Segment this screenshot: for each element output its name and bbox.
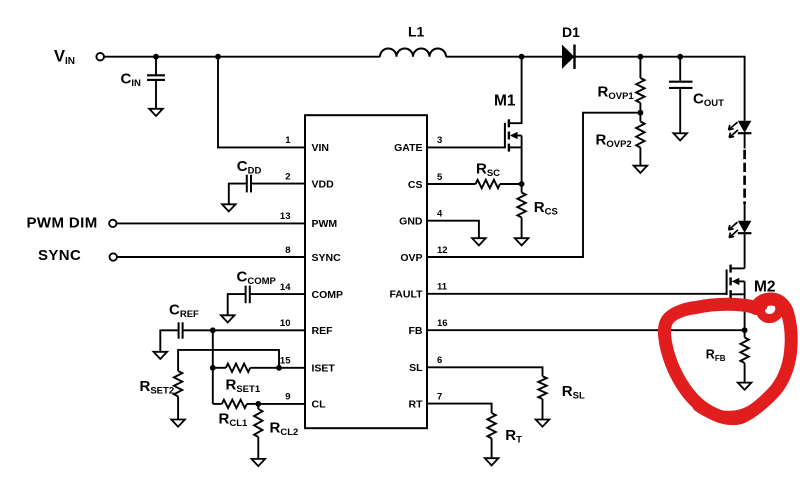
resistor RCL2 xyxy=(254,404,262,459)
svg-text:3: 3 xyxy=(437,135,442,146)
resistor RFB xyxy=(740,330,748,382)
junction ROVP xyxy=(638,110,644,116)
diode D1 xyxy=(562,45,575,69)
wire VIN pin 1 xyxy=(218,57,305,148)
wire L1 to D1 xyxy=(446,56,562,58)
annotation red knot overlap xyxy=(754,297,780,318)
svg-text:15: 15 xyxy=(280,356,291,367)
annotation red bottom thick stroke xyxy=(698,406,755,416)
wire input rail xyxy=(104,56,380,58)
LED D2 xyxy=(729,121,752,149)
junction CS-M1 xyxy=(519,181,525,187)
node VIN input terminal xyxy=(96,53,104,61)
svg-text:CS: CS xyxy=(408,179,423,191)
ground RSL xyxy=(536,420,550,427)
svg-text:14: 14 xyxy=(280,282,291,293)
wire GND pin 4 xyxy=(427,221,479,239)
LED D3 xyxy=(729,204,752,268)
junction rail-VINpin xyxy=(215,54,221,60)
svg-text:9: 9 xyxy=(285,392,290,403)
svg-text:FAULT: FAULT xyxy=(389,289,423,301)
resistor RSET2 xyxy=(174,371,182,420)
capacitor CDD xyxy=(229,175,305,205)
svg-text:16: 16 xyxy=(437,318,448,329)
wire GATE pin 3 xyxy=(427,146,505,148)
svg-text:13: 13 xyxy=(280,211,291,222)
svg-text:4: 4 xyxy=(437,209,443,220)
junction ISET left xyxy=(210,365,216,371)
ground GND pin xyxy=(472,238,486,245)
resistor RCS xyxy=(517,184,525,238)
svg-text:12: 12 xyxy=(437,245,448,256)
capacitor CCOMP xyxy=(228,286,305,316)
svg-text:10: 10 xyxy=(280,318,291,329)
junction rail-COUT xyxy=(677,54,683,60)
svg-text:11: 11 xyxy=(437,282,448,293)
op-amp U1 LED driver IC xyxy=(305,115,427,428)
ground RCL2 xyxy=(252,459,266,466)
svg-text:GND: GND xyxy=(399,216,423,228)
junction REF node xyxy=(210,327,216,333)
wire FB pin 16 xyxy=(427,329,745,331)
resistor RT xyxy=(487,413,495,458)
svg-text:VIN: VIN xyxy=(312,142,330,154)
ground ROVP2 xyxy=(634,166,648,173)
svg-text:SYNC: SYNC xyxy=(38,247,81,264)
ground COUT xyxy=(673,133,687,140)
resistor RSL xyxy=(538,376,546,419)
svg-text:REF: REF xyxy=(312,325,334,337)
transistor M2 xyxy=(727,265,745,331)
junction rail-CIN xyxy=(153,54,159,60)
capacitor CIN xyxy=(147,57,165,109)
svg-text:M1: M1 xyxy=(494,93,516,110)
inductor L1 xyxy=(380,48,446,56)
svg-text:SL: SL xyxy=(409,362,423,374)
svg-text:CL: CL xyxy=(312,399,327,411)
svg-text:OVP: OVP xyxy=(400,252,422,264)
svg-text:VDD: VDD xyxy=(312,178,335,190)
svg-text:ISET: ISET xyxy=(312,363,336,375)
wire CL to IC xyxy=(258,403,305,405)
ground CDD xyxy=(222,204,236,211)
wire OVP pin 12 xyxy=(427,113,640,257)
svg-text:2: 2 xyxy=(285,171,290,182)
wire RSET2 branch xyxy=(178,350,279,371)
ground RSET2 xyxy=(171,420,185,427)
resistor ROVP2 xyxy=(636,113,644,166)
capacitor COUT xyxy=(669,57,693,134)
resistor RCL1 xyxy=(213,400,258,408)
svg-text:L1: L1 xyxy=(408,24,425,40)
wire RT pin 7 xyxy=(427,404,492,413)
junction FB xyxy=(742,327,748,333)
junction rail-ROVP xyxy=(638,54,644,60)
svg-text:GATE: GATE xyxy=(394,142,422,154)
junction rail-M1 xyxy=(519,54,525,60)
ground RT xyxy=(485,458,499,465)
node PWM DIM input xyxy=(109,220,116,227)
wire ISET to IC xyxy=(279,367,305,369)
svg-text:COMP: COMP xyxy=(312,289,344,301)
capacitor CREF xyxy=(160,322,305,352)
resistor ROVP1 xyxy=(636,57,644,113)
svg-text:1: 1 xyxy=(285,135,291,146)
svg-text:5: 5 xyxy=(437,172,443,183)
svg-text:PWM DIM: PWM DIM xyxy=(27,215,98,232)
junction CL xyxy=(255,401,261,407)
svg-text:8: 8 xyxy=(285,245,290,256)
transistor M1 xyxy=(505,57,522,184)
annotation red circle around RFB xyxy=(664,297,791,418)
resistor RSET1 xyxy=(213,364,279,372)
resistor RSC xyxy=(427,180,522,188)
svg-text:6: 6 xyxy=(437,355,442,366)
ground CREF xyxy=(154,352,168,359)
wire dashed LED string xyxy=(743,150,746,204)
svg-text:SYNC: SYNC xyxy=(312,252,342,264)
wire SL pin 6 xyxy=(427,367,543,376)
svg-text:PWM: PWM xyxy=(312,218,338,230)
wire PWM xyxy=(117,222,306,224)
svg-text:7: 7 xyxy=(437,391,442,402)
svg-text:D1: D1 xyxy=(562,24,580,40)
wire REF to CL vertical xyxy=(212,330,214,404)
ground RCS xyxy=(515,238,529,245)
ground CIN xyxy=(149,109,163,116)
ground RFB xyxy=(738,383,752,390)
ground CCOMP xyxy=(221,315,235,322)
wire SYNC xyxy=(117,256,305,258)
svg-text:FB: FB xyxy=(409,325,423,337)
node SYNC input xyxy=(110,253,117,260)
wire output rail xyxy=(576,57,745,121)
svg-text:RT: RT xyxy=(409,398,424,410)
wire FAULT pin 11 xyxy=(427,293,727,295)
junction ISET right xyxy=(276,365,282,371)
